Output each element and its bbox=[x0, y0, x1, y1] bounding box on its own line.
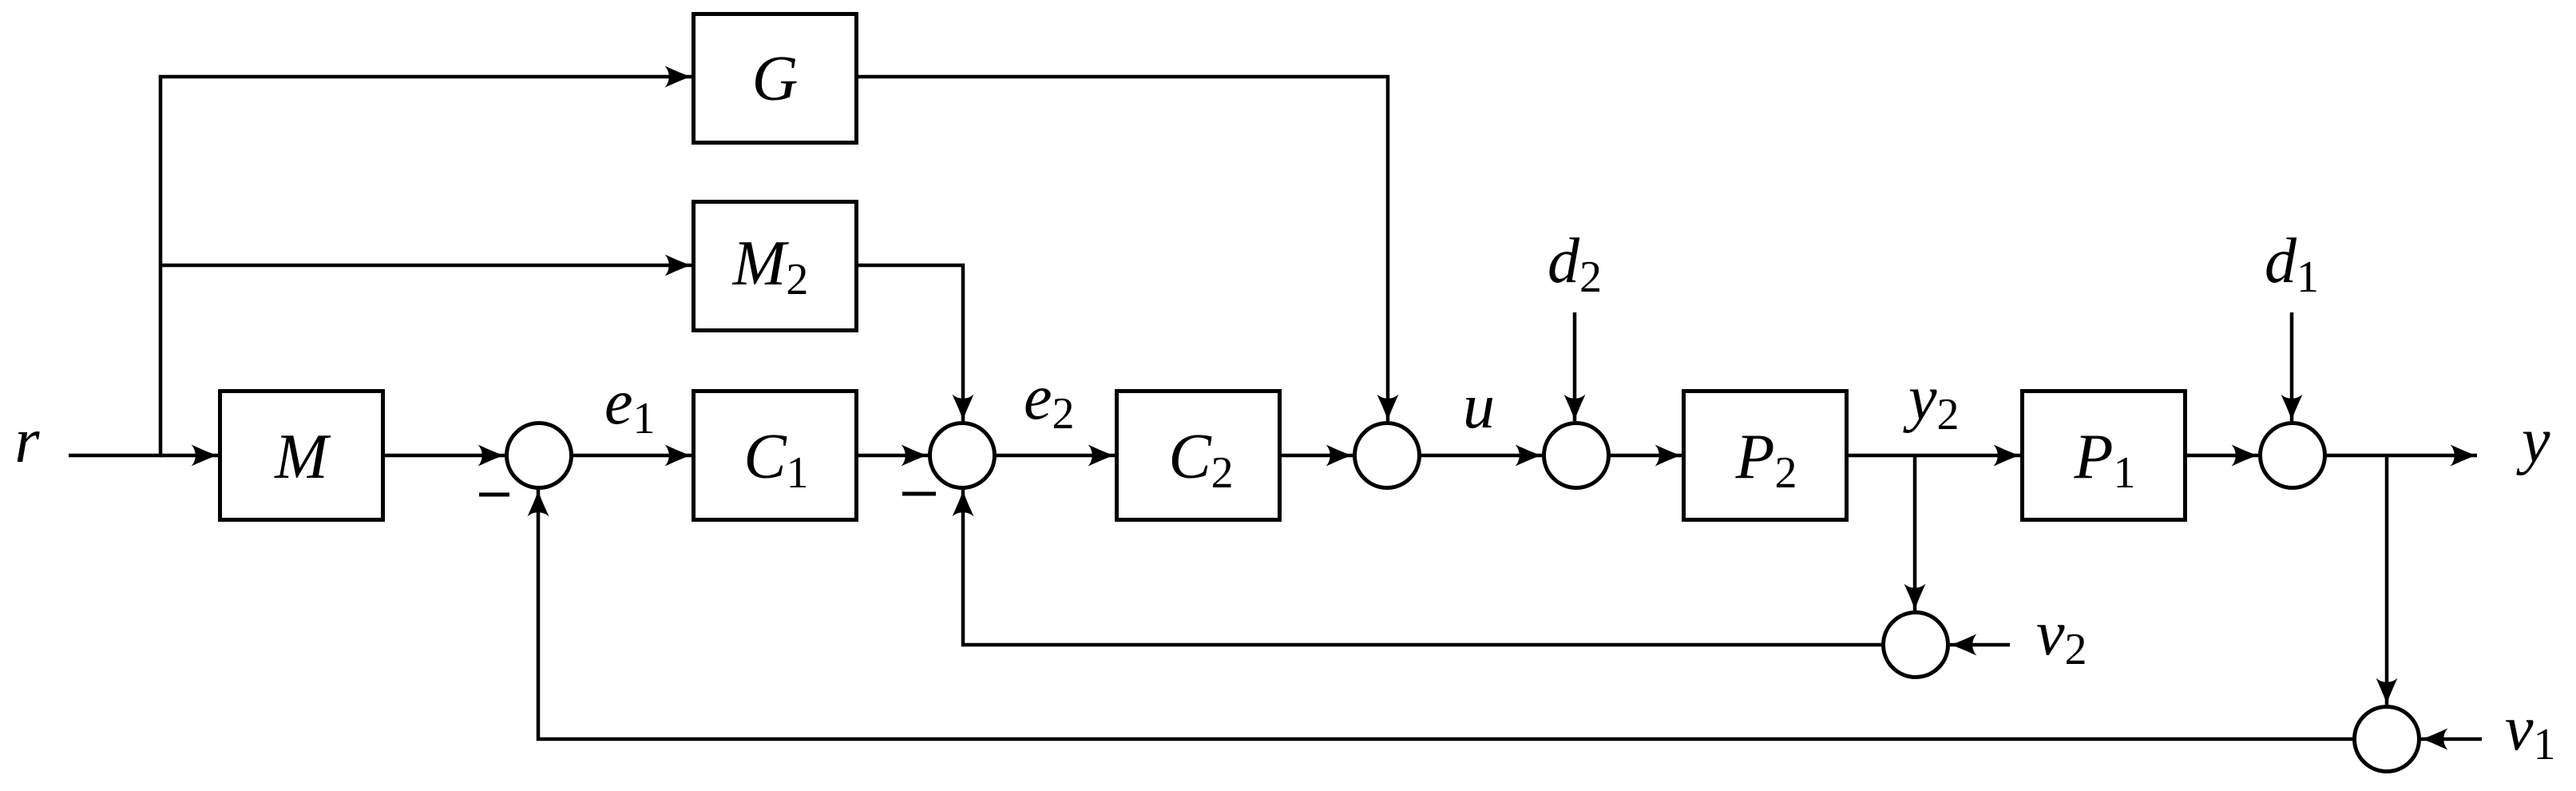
wire P1 to sum S5 bbox=[2187, 454, 2258, 458]
svg-text:G: G bbox=[752, 44, 799, 114]
wire S3 to sum S4, label u bbox=[1421, 454, 1542, 458]
wire r to block M bbox=[69, 454, 218, 458]
wire V2 feedback to sum S2 bbox=[963, 490, 1881, 645]
sum junction S3 bbox=[1355, 423, 1420, 488]
wire M to sum S1 bbox=[385, 454, 505, 458]
block P1 bbox=[2023, 392, 2186, 520]
sum junction V1 bbox=[2355, 707, 2419, 772]
sum junction V2 bbox=[1884, 613, 1948, 678]
wire V1 feedback to sum S1 bbox=[538, 490, 2352, 739]
wire branch to M2 feed bbox=[161, 264, 692, 268]
block C1 bbox=[694, 392, 857, 520]
wire d1 into sum S5 bbox=[2290, 312, 2294, 421]
minus sign at S1 bbox=[479, 493, 509, 497]
sum junction S4 bbox=[1544, 423, 1609, 488]
wire branch from r line up to G feed bbox=[161, 77, 692, 457]
wire C2 to sum S3 bbox=[1282, 454, 1353, 458]
minus sign at S2 bbox=[902, 492, 936, 496]
wire y branch down to sum V1 bbox=[2385, 457, 2389, 705]
wire v1 input arrow bbox=[2421, 737, 2482, 741]
wire C1 to sum S2 bbox=[858, 454, 928, 458]
wire P2 to P1, label y2 bbox=[1849, 454, 2020, 458]
wire S2 to C2, label e2 bbox=[997, 454, 1115, 458]
sum junction S1 bbox=[507, 423, 572, 488]
block M bbox=[220, 392, 383, 520]
block M2 bbox=[694, 202, 857, 331]
wire S1 to C1, label e1 bbox=[573, 454, 692, 458]
block P2 bbox=[1684, 392, 1847, 520]
block G bbox=[694, 14, 857, 143]
wire y2 branch down to sum V2 bbox=[1913, 457, 1917, 610]
svg-text:y: y bbox=[2516, 406, 2550, 476]
wire S4 to P2 bbox=[1611, 454, 1682, 458]
wire S5 to output y bbox=[2327, 454, 2477, 458]
svg-text:u: u bbox=[1463, 372, 1495, 442]
svg-text:M: M bbox=[274, 422, 331, 492]
wire G output down to sum S3 bbox=[857, 77, 1388, 421]
sum junction S2 bbox=[930, 423, 995, 488]
sum junction S5 bbox=[2261, 423, 2325, 488]
wire v2 input arrow bbox=[1950, 643, 2010, 647]
svg-text:r: r bbox=[14, 406, 40, 476]
wire d2 into sum S4 bbox=[1573, 312, 1577, 421]
block C2 bbox=[1117, 392, 1280, 520]
wire M2 output down to sum S2 bbox=[857, 265, 963, 421]
